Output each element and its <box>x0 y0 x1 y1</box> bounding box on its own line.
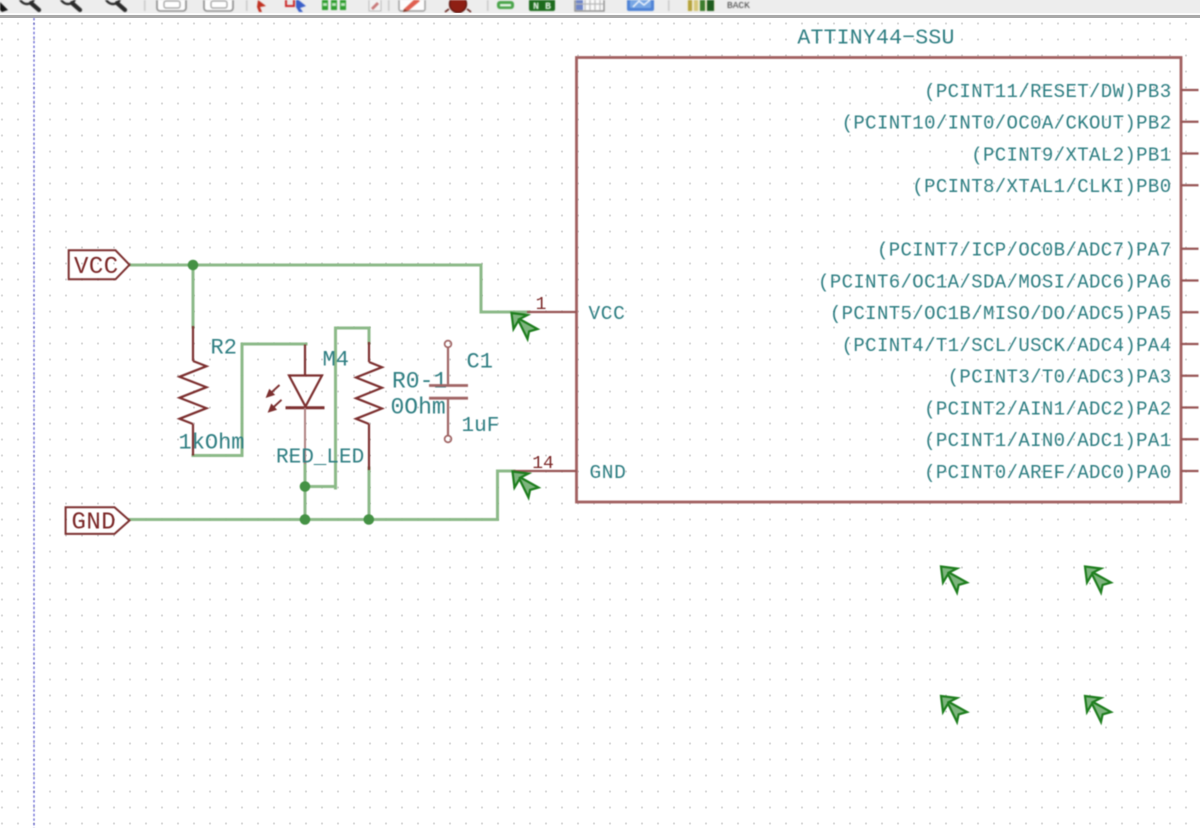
svg-text:(PCINT6/OC1A/SDA/MOSI/ADC6)PA6: (PCINT6/OC1A/SDA/MOSI/ADC6)PA6 <box>818 271 1171 293</box>
wire VCC net: junction down to R2 top <box>192 265 195 327</box>
resistor R2 <box>180 326 207 456</box>
wire branch to resistor M4 top (horizontal) <box>336 327 370 330</box>
junction node B (LED cathode / branch) <box>300 481 311 492</box>
wire GND net: vertical rise to pin 14 row <box>496 471 499 520</box>
pin PA0 stub <box>1181 470 1199 472</box>
pin 1 VCC stub <box>527 311 577 313</box>
wire branch to LED anode (horizontal) <box>242 343 306 346</box>
pin PA4 stub <box>1181 343 1199 345</box>
svg-text:(PCINT8/XTAL1/CLKI)PB0: (PCINT8/XTAL1/CLKI)PB0 <box>912 176 1171 198</box>
power flag VCC (global label) <box>69 250 130 281</box>
ERC marker bottom-left 2 <box>941 696 967 722</box>
wire LED cathode to R branch (horizontal) <box>305 485 336 488</box>
pin PB3 stub <box>1181 89 1199 91</box>
wire VCC net: label to corner (horizontal) <box>130 264 482 267</box>
junction node D (GND rail / R M4) <box>364 514 375 525</box>
svg-text:(PCINT7/ICP/OC0B/ADC7)PA7: (PCINT7/ICP/OC0B/ADC7)PA7 <box>877 240 1172 262</box>
pin PB0 stub <box>1181 184 1199 186</box>
svg-text:RED_LED: RED_LED <box>276 447 364 470</box>
wire resistor M4 top lead wire <box>368 328 371 343</box>
pin PA3 stub <box>1181 375 1199 377</box>
junction node C (GND rail / LED) <box>300 514 311 525</box>
svg-text:1uF: 1uF <box>462 415 500 438</box>
svg-text:(PCINT5/OC1B/MISO/DO/ADC5)PA5: (PCINT5/OC1B/MISO/DO/ADC5)PA5 <box>830 303 1172 325</box>
resistor R0-100hm <box>356 342 382 470</box>
pin PA7 stub <box>1181 248 1199 250</box>
pin PB1 stub <box>1181 152 1199 154</box>
svg-text:ATTINY44−SSU: ATTINY44−SSU <box>797 27 954 51</box>
svg-text:14: 14 <box>532 454 554 474</box>
svg-text:VCC: VCC <box>589 303 626 325</box>
pin PA1 stub <box>1181 438 1199 440</box>
pin PA5 stub <box>1181 311 1199 313</box>
wire VCC net: vertical drop to pin 1 row <box>480 265 483 312</box>
svg-text:M4: M4 <box>323 348 349 373</box>
svg-text:(PCINT11/RESET/DW)PB3: (PCINT11/RESET/DW)PB3 <box>924 81 1171 103</box>
IC U1 ATTINY44-SSU body <box>577 58 1182 503</box>
pin PA2 stub <box>1181 406 1199 408</box>
LED emission arrow 1 <box>266 385 280 398</box>
ERC marker bottom-right 1 <box>1085 567 1111 593</box>
svg-text:1kOhm: 1kOhm <box>179 431 245 456</box>
svg-text:(PCINT9/XTAL2)PB1: (PCINT9/XTAL2)PB1 <box>971 144 1171 166</box>
svg-text:(PCINT0/AREF/ADC0)PA0: (PCINT0/AREF/ADC0)PA0 <box>924 462 1171 484</box>
pin 14 GND stub <box>513 470 577 472</box>
svg-text:(PCINT3/T0/ADC3)PA3: (PCINT3/T0/ADC3)PA3 <box>948 367 1172 389</box>
svg-text:GND: GND <box>590 462 627 484</box>
wire GND rail (horizontal) <box>130 518 498 521</box>
svg-text:R0-1: R0-1 <box>392 369 447 395</box>
svg-text:C1: C1 <box>467 350 493 375</box>
svg-text:(PCINT4/T1/SCL/USCK/ADC4)PA4: (PCINT4/T1/SCL/USCK/ADC4)PA4 <box>842 335 1172 357</box>
ERC marker at pin 14 <box>513 472 539 498</box>
LED RED_LED (diode symbol) <box>286 345 325 465</box>
svg-text:VCC: VCC <box>74 254 119 281</box>
svg-text:(PCINT10/INT0/OC0A/CKOUT)PB2: (PCINT10/INT0/OC0A/CKOUT)PB2 <box>842 113 1172 135</box>
wire LED cathode down to GND rail <box>304 462 307 520</box>
pin PB2 stub <box>1181 121 1199 123</box>
wire GND net: horizontal into pin 14 <box>498 470 515 473</box>
sheet border (blue dashed page edge) <box>33 18 35 828</box>
ERC marker at pin 1 <box>512 313 538 339</box>
ERC marker bottom-left 1 <box>941 567 967 593</box>
wire branch vertical riser to resistor top <box>334 328 337 488</box>
svg-text:1: 1 <box>536 295 547 315</box>
wire VCC net: horizontal into pin 1 <box>481 311 529 314</box>
svg-text:(PCINT1/AIN0/ADC1)PA1: (PCINT1/AIN0/ADC1)PA1 <box>924 430 1171 452</box>
svg-text:GND: GND <box>72 510 117 537</box>
pin PA6 stub <box>1181 279 1199 281</box>
LED emission arrow 2 <box>268 400 282 413</box>
wire resistor M4 bottom to GND rail <box>368 468 371 520</box>
svg-text:(PCINT2/AIN1/ADC2)PA2: (PCINT2/AIN1/ADC2)PA2 <box>924 398 1171 420</box>
ground GND (global label) <box>66 507 130 536</box>
wire R2 branch vertical riser <box>241 344 244 456</box>
capacitor C1 <box>429 341 468 443</box>
wire R2 bottom to LED branch (horizontal) <box>193 454 242 457</box>
svg-text:R2: R2 <box>211 336 237 361</box>
junction node A (VCC rail / R2) <box>188 260 199 271</box>
ERC marker bottom-right 2 <box>1085 696 1111 722</box>
